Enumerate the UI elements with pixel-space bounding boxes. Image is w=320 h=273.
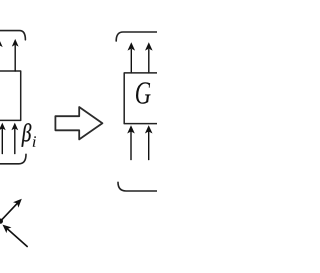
diagonal arrow up-right from node: [1, 199, 22, 221]
diagonal arrow up-left into node: [3, 225, 28, 247]
output arrow 1 above right box: [128, 42, 136, 73]
underbrace end (right, cropped): [118, 182, 163, 191]
cropped output arrowhead at left edge: [0, 39, 3, 47]
input arrow 1 into left box bottom: [0, 123, 6, 154]
big hollow arrow: [55, 107, 102, 139]
label script G: [136, 82, 151, 104]
left box (cropped at image edge): [0, 71, 21, 120]
input arrow 1 into right box bottom: [127, 125, 135, 159]
overbrace end (left, cropped): [0, 31, 25, 40]
label subscript i: [33, 136, 36, 146]
input arrow 2 into right box bottom: [145, 125, 153, 159]
underbrace end (left, cropped): [0, 154, 26, 164]
right box (cropped at right image edge): [124, 73, 166, 124]
label beta: [22, 123, 32, 146]
graph node (cropped at left edge): [0, 219, 3, 224]
input arrow 2 into left box bottom: [11, 123, 18, 154]
overbrace end (right, cropped): [116, 32, 163, 41]
output arrow 2 above right box: [145, 42, 153, 73]
output arrow from left box top: [12, 39, 19, 71]
